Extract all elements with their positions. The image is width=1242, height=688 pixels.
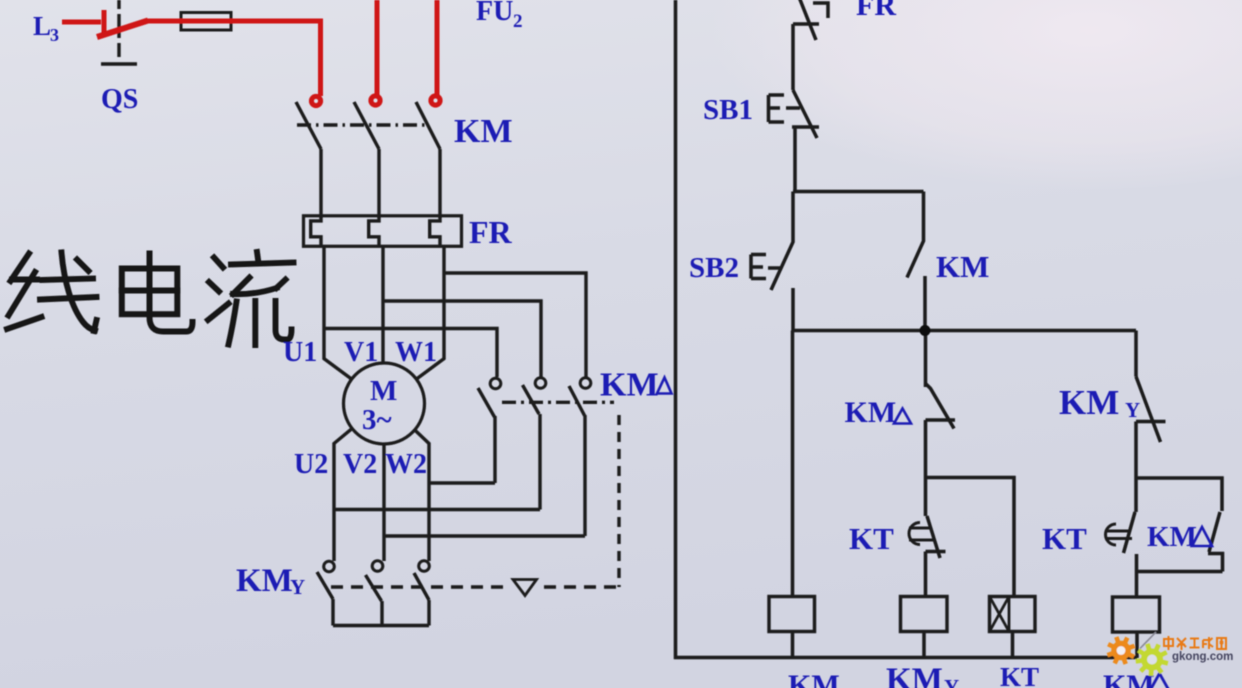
svg-text:3~: 3~ xyxy=(362,404,392,436)
svg-text:KT: KT xyxy=(849,521,894,556)
svg-text:V2: V2 xyxy=(343,449,377,480)
svg-text:KM: KM xyxy=(788,669,840,688)
svg-text:KM: KM xyxy=(236,563,293,599)
svg-text:Y: Y xyxy=(1125,398,1140,422)
svg-text:QS: QS xyxy=(101,84,138,115)
svg-text:2: 2 xyxy=(513,11,523,32)
svg-text:Y: Y xyxy=(944,675,959,688)
svg-text:Y: Y xyxy=(290,575,305,599)
svg-text:FR: FR xyxy=(469,214,513,250)
svg-text:U1: U1 xyxy=(283,337,317,368)
svg-text:KT: KT xyxy=(1042,521,1087,556)
svg-text:W2: W2 xyxy=(385,449,427,480)
svg-text:KM: KM xyxy=(1103,669,1155,688)
svg-text:KM: KM xyxy=(1059,383,1119,422)
svg-text:KT: KT xyxy=(1000,662,1039,688)
svg-text:SB2: SB2 xyxy=(689,252,739,284)
svg-text:3: 3 xyxy=(50,25,59,45)
svg-text:M: M xyxy=(370,375,397,407)
svg-text:FR: FR xyxy=(856,0,896,22)
svg-text:U2: U2 xyxy=(294,449,328,480)
svg-text:FU: FU xyxy=(476,0,513,27)
svg-text:W1: W1 xyxy=(395,337,437,368)
svg-text:SB1: SB1 xyxy=(703,94,753,126)
svg-text:KM: KM xyxy=(845,396,897,429)
svg-text:V1: V1 xyxy=(344,337,378,368)
svg-text:KM: KM xyxy=(886,662,943,688)
svg-text:L: L xyxy=(33,11,51,41)
svg-text:KM: KM xyxy=(936,249,989,284)
svg-text:KM: KM xyxy=(600,367,659,404)
svg-text:KM: KM xyxy=(1147,521,1197,553)
svg-text:gkong.com: gkong.com xyxy=(1172,651,1233,663)
svg-text:KM: KM xyxy=(454,113,513,150)
